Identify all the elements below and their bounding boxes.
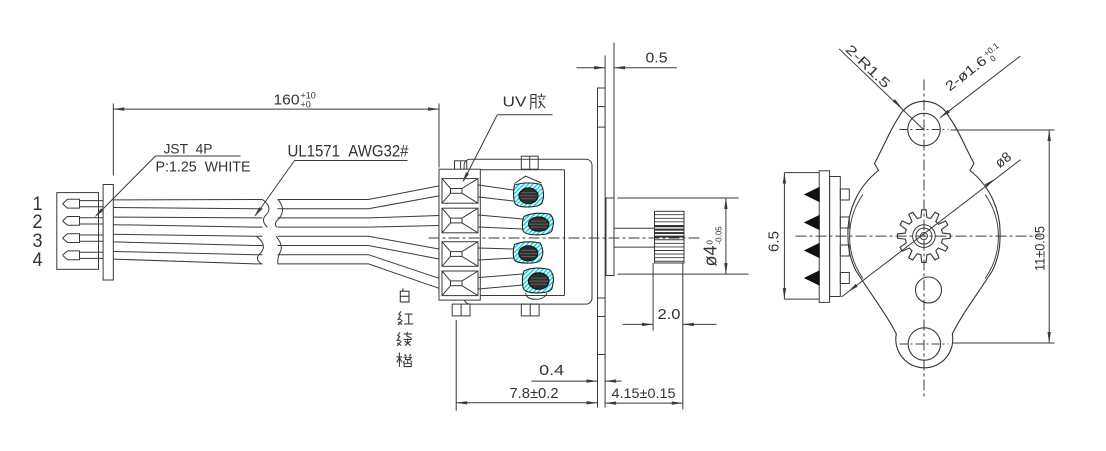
svg-text:6.5: 6.5 [766, 231, 783, 252]
svg-text:ø4: ø4 [701, 245, 721, 266]
svg-text:0.5: 0.5 [646, 50, 668, 67]
svg-text:0.4: 0.4 [539, 362, 564, 379]
svg-text:-0.05: -0.05 [715, 226, 724, 245]
svg-text:3: 3 [33, 231, 43, 252]
svg-text:+0: +0 [301, 100, 311, 110]
svg-text:0: 0 [706, 240, 715, 245]
svg-text:2: 2 [33, 212, 43, 233]
svg-text:JST 4P: JST 4P [164, 141, 213, 157]
svg-text:11±0.05: 11±0.05 [1032, 226, 1048, 271]
svg-text:P:1.25 WHITE: P:1.25 WHITE [156, 159, 251, 176]
svg-text:2.0: 2.0 [658, 306, 681, 323]
svg-text:4.15±0.15: 4.15±0.15 [612, 385, 676, 401]
svg-text:160: 160 [274, 92, 300, 109]
svg-text:4: 4 [33, 250, 43, 271]
svg-text:7.8±0.2: 7.8±0.2 [510, 385, 559, 402]
svg-text:UL1571 AWG32#: UL1571 AWG32# [288, 142, 409, 161]
svg-text:UV: UV [503, 94, 527, 111]
